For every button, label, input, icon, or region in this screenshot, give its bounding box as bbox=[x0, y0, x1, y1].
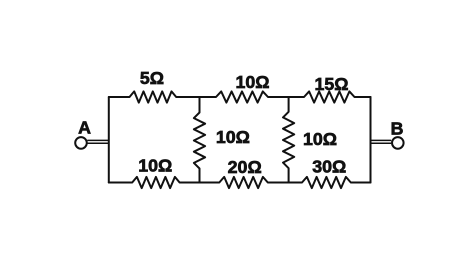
svg-text:A: A bbox=[78, 118, 91, 138]
svg-text:20Ω: 20Ω bbox=[228, 157, 262, 177]
svg-text:10Ω: 10Ω bbox=[138, 155, 172, 175]
svg-text:10Ω: 10Ω bbox=[235, 72, 269, 92]
svg-text:30Ω: 30Ω bbox=[312, 157, 346, 177]
svg-text:10Ω: 10Ω bbox=[216, 127, 250, 147]
svg-text:15Ω: 15Ω bbox=[314, 74, 348, 94]
svg-text:5Ω: 5Ω bbox=[140, 68, 164, 88]
svg-text:10Ω: 10Ω bbox=[303, 129, 337, 149]
svg-text:B: B bbox=[391, 119, 404, 139]
